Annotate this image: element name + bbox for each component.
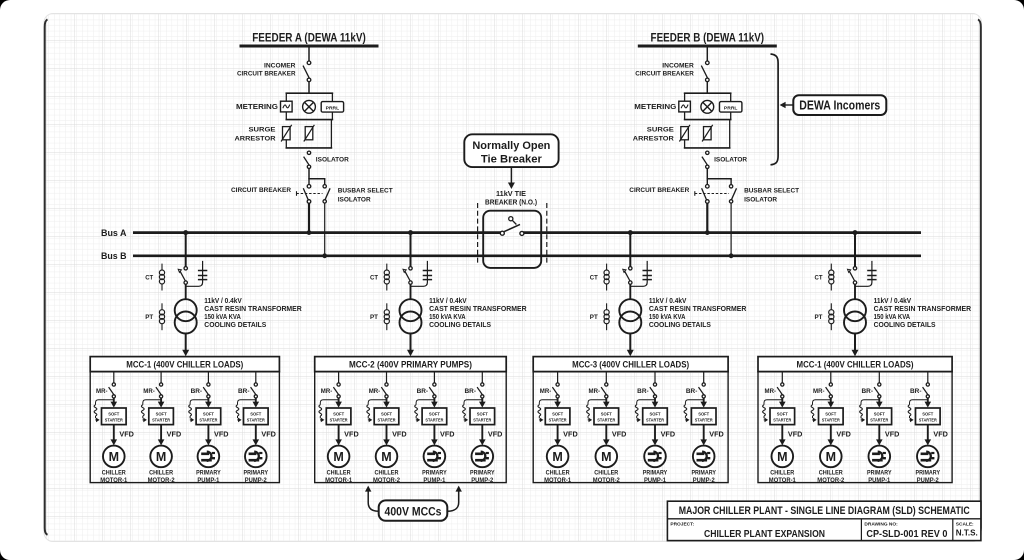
svg-text:MOTOR-2: MOTOR-2 <box>817 477 844 484</box>
busbar select isolator label <box>744 188 799 204</box>
svg-text:METERING: METERING <box>634 104 677 111</box>
svg-text:VFD: VFD <box>885 432 900 439</box>
svg-text:VFD: VFD <box>214 432 229 439</box>
soft starter <box>326 408 351 425</box>
svg-text:CAST RESIN TRANSFORMER: CAST RESIN TRANSFORMER <box>204 306 302 313</box>
control feedback loop <box>763 400 783 423</box>
motor label <box>691 469 716 484</box>
svg-text:SOFT: SOFT <box>922 411 933 416</box>
svg-text:N.T.S.: N.T.S. <box>956 529 978 538</box>
motor label <box>769 469 796 484</box>
motor CHILLER MOTOR-1 <box>547 446 569 468</box>
wire with arrow <box>335 425 342 446</box>
svg-text:MR-: MR- <box>765 388 777 395</box>
CT 4 <box>829 264 834 291</box>
svg-text:ARRESTOR: ARRESTOR <box>633 135 674 142</box>
svg-text:BR-: BR- <box>686 388 698 395</box>
wire with arrow <box>158 398 165 408</box>
wire with arrow <box>876 425 883 446</box>
breaker link (dashed) <box>695 191 729 196</box>
svg-text:SOFT: SOFT <box>156 411 167 416</box>
svg-text:MCC-1 (400V CHILLER LOADS): MCC-1 (400V CHILLER LOADS) <box>126 360 243 370</box>
wire <box>255 372 257 383</box>
svg-text:ISOLATOR: ISOLATOR <box>338 196 371 203</box>
off-load link 3 <box>643 271 652 280</box>
svg-text:M: M <box>333 450 343 464</box>
svg-text:MOTOR-2: MOTOR-2 <box>373 477 400 484</box>
svg-text:MOTOR-1: MOTOR-1 <box>544 477 571 484</box>
svg-text:STARTER: STARTER <box>330 418 349 423</box>
control feedback loop <box>189 400 209 423</box>
arrow to bracket <box>780 102 794 108</box>
incomer circuit breaker label <box>237 63 296 78</box>
svg-text:STARTER: STARTER <box>378 418 397 423</box>
svg-text:COOLING DETAILS: COOLING DETAILS <box>429 322 491 329</box>
motor label <box>422 469 447 484</box>
svg-text:COOLING DETAILS: COOLING DETAILS <box>204 322 266 329</box>
page left border <box>45 20 48 535</box>
wire with arrow <box>431 398 438 408</box>
svg-text:SOFT: SOFT <box>552 411 563 416</box>
svg-text:SOFT: SOFT <box>477 411 488 416</box>
breaker BR-1 <box>203 383 210 398</box>
feeder B supply bar <box>638 45 777 48</box>
PRRL relay <box>720 102 742 113</box>
pump PRIMARY PUMP-2 <box>917 446 939 468</box>
incomer circuit breaker A <box>303 61 311 82</box>
svg-text:SOFT: SOFT <box>698 411 709 416</box>
svg-text:PRIMARY: PRIMARY <box>867 469 892 476</box>
wire <box>629 284 631 299</box>
svg-text:MCC-2 (400V PRIMARY PUMPS): MCC-2 (400V PRIMARY PUMPS) <box>349 360 472 370</box>
soft starter <box>916 408 941 425</box>
svg-text:PUMP-1: PUMP-1 <box>644 477 666 484</box>
svg-text:PT: PT <box>815 314 823 321</box>
soft starter <box>867 408 892 425</box>
PT 1 <box>159 303 164 330</box>
feeder A supply bar <box>240 45 379 48</box>
wire <box>706 82 708 94</box>
off-load link 4 <box>867 271 876 280</box>
svg-text:CT: CT <box>815 275 823 282</box>
breaker BR-1 <box>874 383 881 398</box>
svg-text:PT: PT <box>370 314 378 321</box>
svg-text:BUSBAR SELECT: BUSBAR SELECT <box>744 188 799 195</box>
MCC enclosure <box>315 372 507 483</box>
wire to MCC <box>627 334 634 357</box>
svg-text:VFD: VFD <box>836 432 851 439</box>
soft starter <box>819 408 844 425</box>
wire <box>410 284 412 299</box>
svg-text:COOLING DETAILS: COOLING DETAILS <box>649 322 711 329</box>
wire with arrow <box>925 398 932 408</box>
soft starter <box>422 408 447 425</box>
svg-text:PUMP-2: PUMP-2 <box>471 477 493 484</box>
control feedback loop <box>94 400 114 423</box>
pump PRIMARY PUMP-2 <box>693 446 715 468</box>
motor label <box>325 469 352 484</box>
breaker MR-2 <box>381 383 388 398</box>
breaker MR-2 <box>601 383 608 398</box>
soft starter <box>691 408 716 425</box>
motor CHILLER MOTOR-2 <box>376 446 398 468</box>
400V MCCs callout arrows <box>365 486 462 512</box>
svg-text:STARTER: STARTER <box>822 418 841 423</box>
circuit breaker A <box>303 185 311 204</box>
node on Bus B <box>322 253 327 258</box>
breaker MR-1 <box>109 383 116 398</box>
wire <box>410 233 412 267</box>
svg-text:VFD: VFD <box>119 432 133 439</box>
svg-text:MR-: MR- <box>540 388 552 395</box>
tie breaker dashed boundary left <box>477 203 479 265</box>
svg-text:PUMP-1: PUMP-1 <box>423 477 445 484</box>
busbar select isolator A <box>323 185 330 203</box>
feeder isolator 3 <box>623 267 632 285</box>
pump PRIMARY PUMP-1 <box>869 446 891 468</box>
svg-text:PRIMARY: PRIMARY <box>470 469 495 476</box>
svg-text:11kV / 0.4kV: 11kV / 0.4kV <box>874 298 912 305</box>
surge arrestor label <box>235 127 277 143</box>
node on Bus A <box>307 230 312 235</box>
wire <box>160 372 162 383</box>
svg-text:CHILLER: CHILLER <box>546 469 570 476</box>
svg-text:CAST RESIN TRANSFORMER: CAST RESIN TRANSFORMER <box>649 306 747 313</box>
svg-text:BREAKER (N.O.): BREAKER (N.O.) <box>485 200 537 207</box>
wire with arrow <box>828 398 835 408</box>
svg-text:MR-: MR- <box>96 388 108 395</box>
svg-text:STARTER: STARTER <box>597 418 616 423</box>
breaker MR-1 <box>777 383 784 398</box>
drawing no cell <box>864 522 947 540</box>
control feedback loop <box>538 400 558 423</box>
breaker MR-1 <box>552 383 559 398</box>
svg-text:PRIMARY: PRIMARY <box>643 469 668 476</box>
svg-text:STARTER: STARTER <box>199 418 218 423</box>
svg-text:INCOMER: INCOMER <box>662 63 694 70</box>
motor CHILLER MOTOR-2 <box>820 446 842 468</box>
soft starter <box>643 408 668 425</box>
transformer label <box>204 298 302 329</box>
svg-text:150 kVA KVA: 150 kVA KVA <box>649 314 686 321</box>
svg-text:BR-: BR- <box>637 388 649 395</box>
svg-text:SOFT: SOFT <box>108 411 119 416</box>
wire with arrow <box>253 398 260 408</box>
svg-text:CHILLER: CHILLER <box>819 469 843 476</box>
pump PRIMARY PUMP-1 <box>644 446 666 468</box>
breaker BR-1 <box>650 383 657 398</box>
link branch wire <box>630 261 647 286</box>
svg-text:Bus A: Bus A <box>101 228 127 238</box>
wire <box>605 372 607 383</box>
wire with arrow <box>828 425 835 446</box>
wire <box>654 372 656 383</box>
callout arrow <box>508 167 515 189</box>
control feedback loop <box>860 400 880 423</box>
svg-text:VFD: VFD <box>661 432 676 439</box>
svg-text:CHILLER: CHILLER <box>149 469 173 476</box>
wire with arrow <box>111 398 118 408</box>
svg-text:M: M <box>777 450 787 464</box>
svg-text:CHILLER PLANT EXPANSION: CHILLER PLANT EXPANSION <box>704 529 825 540</box>
svg-text:400V MCCs: 400V MCCs <box>385 506 442 518</box>
svg-text:ISOLATOR: ISOLATOR <box>744 196 777 203</box>
svg-text:PROJECT:: PROJECT: <box>670 522 694 528</box>
svg-text:SOFT: SOFT <box>203 411 214 416</box>
wire with arrow <box>603 425 610 446</box>
surge arrestor bus bar <box>684 120 731 148</box>
svg-text:MCC-3 (400V CHILLER LOADS): MCC-3 (400V CHILLER LOADS) <box>572 360 689 370</box>
svg-text:MOTOR-2: MOTOR-2 <box>593 477 620 484</box>
wire to Bus B <box>730 203 732 256</box>
breaker MR-2 <box>826 383 833 398</box>
svg-text:11kV / 0.4kV: 11kV / 0.4kV <box>649 298 687 305</box>
svg-text:PUMP-1: PUMP-1 <box>197 477 219 484</box>
busbar select isolator label <box>338 188 393 204</box>
waveform meter <box>281 101 293 112</box>
svg-text:BR-: BR- <box>465 388 477 395</box>
svg-text:BR-: BR- <box>862 388 874 395</box>
transformer feeder 2: node on Bus A <box>408 230 413 235</box>
svg-text:CT: CT <box>370 275 378 282</box>
motor label <box>544 469 571 484</box>
control feedback loop <box>635 400 655 423</box>
soft starter <box>374 408 399 425</box>
wire <box>185 233 187 267</box>
svg-text:VFD: VFD <box>167 432 182 439</box>
svg-text:CIRCUIT BREAKER: CIRCUIT BREAKER <box>231 187 291 194</box>
wire to MCC <box>852 334 859 357</box>
svg-text:MCC-1 (400V CHILLER LOADS): MCC-1 (400V CHILLER LOADS) <box>797 360 914 370</box>
soft starter <box>470 408 495 425</box>
metering bus bars <box>684 93 732 119</box>
transformer feeder 4: node on Bus A <box>853 230 858 235</box>
wire with arrow <box>158 425 165 446</box>
transformer feeder 1: node on Bus A <box>183 230 188 235</box>
motor label <box>244 469 269 484</box>
wire with arrow <box>253 425 260 446</box>
motor label <box>593 469 620 484</box>
kWh meter <box>701 100 714 113</box>
motor label <box>817 469 844 484</box>
transformer T4 <box>844 299 866 333</box>
control feedback loop <box>463 400 483 423</box>
wire to Bus B <box>324 203 326 256</box>
svg-text:VFD: VFD <box>261 432 276 439</box>
motor label <box>643 469 668 484</box>
node on Bus B <box>729 253 734 258</box>
control feedback loop <box>684 400 704 423</box>
motor label <box>916 469 941 484</box>
control feedback loop <box>236 400 256 423</box>
motor CHILLER MOTOR-2 <box>150 446 172 468</box>
svg-text:STARTER: STARTER <box>773 418 792 423</box>
motor CHILLER MOTOR-2 <box>596 446 618 468</box>
svg-text:M: M <box>156 450 166 464</box>
svg-text:MR-: MR- <box>321 388 333 395</box>
PRRL relay <box>321 102 343 113</box>
svg-text:CHILLER: CHILLER <box>770 469 794 476</box>
wire with arrow <box>335 398 342 408</box>
Bus B <box>133 254 921 257</box>
DEWA Incomers callout box <box>793 95 886 115</box>
wire <box>207 372 209 383</box>
page right border <box>978 20 981 535</box>
breaker MR-1 <box>333 383 340 398</box>
svg-text:VFD: VFD <box>563 432 578 439</box>
motor CHILLER MOTOR-1 <box>328 446 350 468</box>
wire with arrow <box>554 398 561 408</box>
wire with arrow <box>652 398 659 408</box>
svg-text:STARTER: STARTER <box>425 418 444 423</box>
wire <box>703 372 705 383</box>
svg-text:STARTER: STARTER <box>695 418 714 423</box>
svg-text:MR-: MR- <box>143 388 155 395</box>
svg-text:11kV / 0.4kV: 11kV / 0.4kV <box>429 298 467 305</box>
svg-text:M: M <box>109 450 119 464</box>
wire with arrow <box>383 398 390 408</box>
svg-text:MR-: MR- <box>589 388 601 395</box>
wire to MCC <box>407 334 414 357</box>
pump PRIMARY PUMP-1 <box>198 446 220 468</box>
off-load link 2 <box>423 271 432 280</box>
soft starter <box>244 408 269 425</box>
svg-text:ARRESTOR: ARRESTOR <box>235 135 276 142</box>
link branch wire <box>855 261 872 286</box>
wire <box>113 372 115 383</box>
wire <box>308 46 310 61</box>
motor label <box>470 469 495 484</box>
MCC panel: MCC-1 (400V CHILLER LOADS) <box>758 357 952 372</box>
wire with arrow <box>603 398 610 408</box>
svg-text:PRIMARY: PRIMARY <box>196 469 221 476</box>
link branch wire <box>411 261 428 286</box>
svg-text:SOFT: SOFT <box>874 411 885 416</box>
wire with arrow <box>205 398 212 408</box>
circuit breaker B <box>702 185 710 204</box>
surge arrestor 1 <box>679 125 690 142</box>
wire with arrow <box>111 425 118 446</box>
svg-text:VFD: VFD <box>788 432 803 439</box>
svg-text:SOFT: SOFT <box>825 411 836 416</box>
wire <box>854 284 856 299</box>
svg-text:BUSBAR SELECT: BUSBAR SELECT <box>338 188 393 195</box>
transformer label <box>874 298 972 329</box>
MCC enclosure <box>90 372 279 483</box>
wire with arrow <box>554 425 561 446</box>
soft starter <box>149 408 174 425</box>
svg-text:STARTER: STARTER <box>473 418 492 423</box>
wire <box>557 372 559 383</box>
svg-text:STARTER: STARTER <box>870 418 889 423</box>
tie breaker label <box>485 191 537 206</box>
svg-text:Normally Open: Normally Open <box>472 140 550 152</box>
svg-text:Bus B: Bus B <box>101 251 127 261</box>
transformer label <box>429 298 527 329</box>
svg-text:PT: PT <box>145 314 153 321</box>
svg-text:MOTOR-2: MOTOR-2 <box>148 477 175 484</box>
isolator A <box>304 151 311 168</box>
svg-text:SOFT: SOFT <box>381 411 392 416</box>
wire with arrow <box>652 425 659 446</box>
wire <box>185 284 187 299</box>
transformer T1 <box>175 299 197 333</box>
svg-text:MAJOR CHILLER PLANT - SINGLE L: MAJOR CHILLER PLANT - SINGLE LINE DIAGRA… <box>679 505 970 517</box>
svg-text:M: M <box>552 450 562 464</box>
svg-text:STARTER: STARTER <box>152 418 171 423</box>
soft starter <box>545 408 570 425</box>
wire with arrow <box>925 425 932 446</box>
tie breaker enclosure <box>483 211 541 268</box>
wire with arrow <box>383 425 390 446</box>
svg-text:MR-: MR- <box>369 388 381 395</box>
incomer circuit breaker B <box>701 61 709 82</box>
wire with arrow <box>779 425 786 446</box>
svg-text:CAST RESIN TRANSFORMER: CAST RESIN TRANSFORMER <box>429 306 527 313</box>
wire to Bus A <box>308 203 310 233</box>
wire <box>878 372 880 383</box>
soft starter <box>594 408 619 425</box>
svg-text:BR-: BR- <box>191 388 203 395</box>
motor label <box>867 469 892 484</box>
svg-text:VFD: VFD <box>933 432 948 439</box>
svg-text:CHILLER: CHILLER <box>594 469 618 476</box>
control feedback loop <box>415 400 435 423</box>
surge arrestor label <box>633 127 675 143</box>
svg-text:CIRCUIT BREAKER: CIRCUIT BREAKER <box>629 187 689 194</box>
svg-text:PUMP-2: PUMP-2 <box>917 477 939 484</box>
control feedback loop <box>367 400 387 423</box>
svg-text:CT: CT <box>590 275 598 282</box>
CT 3 <box>604 264 609 291</box>
wire with arrow <box>700 425 707 446</box>
svg-text:ISOLATOR: ISOLATOR <box>316 157 349 164</box>
scale cell <box>956 522 978 538</box>
soft starter <box>770 408 795 425</box>
control feedback loop <box>141 400 161 423</box>
svg-text:STARTER: STARTER <box>247 418 266 423</box>
svg-text:CP-SLD-001 REV 0: CP-SLD-001 REV 0 <box>866 529 947 540</box>
svg-text:COOLING DETAILS: COOLING DETAILS <box>874 322 936 329</box>
feeder isolator 2 <box>403 267 412 285</box>
incomer circuit breaker label <box>635 63 694 78</box>
PT 2 <box>384 303 389 330</box>
breaker BR-2 <box>251 383 258 398</box>
wire with arrow <box>205 425 212 446</box>
svg-text:Tie Breaker: Tie Breaker <box>481 153 543 165</box>
breaker MR-2 <box>156 383 163 398</box>
wire <box>706 46 708 61</box>
wire <box>338 372 340 383</box>
svg-text:PRRL: PRRL <box>326 105 340 110</box>
svg-text:CT: CT <box>145 275 153 282</box>
soft starter <box>102 408 127 425</box>
PT 3 <box>604 303 609 330</box>
svg-text:INCOMER: INCOMER <box>264 63 296 70</box>
wire <box>386 372 388 383</box>
wire with arrow <box>779 398 786 408</box>
wire <box>629 233 631 267</box>
svg-text:MOTOR-1: MOTOR-1 <box>769 477 796 484</box>
link branch wire <box>186 261 203 286</box>
transformer feeder 3: node on Bus A <box>628 230 633 235</box>
400V MCCs callout box <box>379 500 448 520</box>
svg-text:MR-: MR- <box>813 388 825 395</box>
pump PRIMARY PUMP-2 <box>472 446 494 468</box>
motor label <box>100 469 127 484</box>
svg-text:CHILLER: CHILLER <box>102 469 126 476</box>
wire <box>781 372 783 383</box>
